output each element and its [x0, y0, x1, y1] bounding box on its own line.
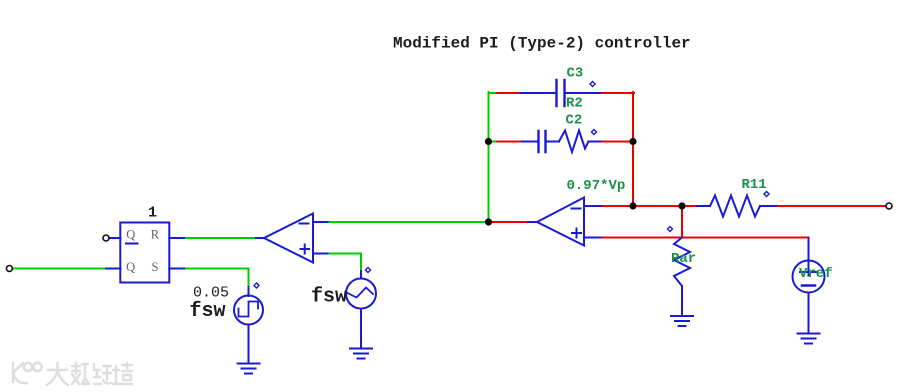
wire: op-amp plus input lead: [584, 237, 601, 239]
node marker diamond (C3): [590, 82, 595, 87]
wire: top branch left green stub: [489, 92, 498, 94]
ground below sine source: [350, 349, 372, 359]
comparator U2: [264, 214, 313, 263]
svg-text:0.97*Vp: 0.97*Vp: [567, 178, 626, 194]
wire: Rar bottom lead: [681, 286, 683, 316]
terminal: right open circle: [886, 203, 892, 209]
node marker diamond (C2/R2): [592, 130, 597, 135]
wire: comparator output to flip-flop R pin (green): [184, 237, 256, 239]
terminal: left open circle: [6, 266, 12, 272]
svg-text:Q: Q: [126, 228, 135, 242]
svg-text:0.05: 0.05: [193, 285, 229, 302]
wire: Vref bottom lead: [808, 293, 810, 334]
op-amp U1 0.97*Vp: [537, 198, 584, 246]
wire: flip-flop S pin to square source (green): [184, 269, 249, 288]
wire: op-amp output red segment: [489, 221, 529, 223]
wire: C2 branch red right segment: [600, 141, 633, 143]
watermark logo: [13, 363, 42, 383]
wire: square source top lead: [248, 287, 250, 296]
wire: flip-flop Qbar pin stub: [109, 237, 120, 239]
wire: left vertical green bus: [488, 92, 490, 222]
node marker diamond (square source): [254, 283, 259, 288]
svg-text:R11: R11: [742, 177, 767, 193]
wire: op-amp minus input lead: [584, 205, 601, 207]
terminal: flip-flop Qbar open circle: [103, 235, 109, 241]
ground below square source: [238, 364, 260, 374]
wire: comparator minus input lead: [313, 221, 328, 223]
svg-text:Q: Q: [126, 260, 135, 274]
node marker diamond (Rar): [668, 227, 673, 232]
svg-text:C3: C3: [567, 66, 584, 82]
wire: comparator plus input to sine source (green): [328, 254, 362, 272]
wire: Rar top red segment: [681, 206, 683, 238]
wire: C3 leads blue: [521, 92, 601, 94]
svg-text:fsw: fsw: [190, 300, 226, 323]
ground below Rar: [671, 316, 693, 326]
wire: square source bottom lead: [248, 325, 250, 364]
wire: C2 branch red left segment: [497, 141, 522, 143]
wire: R11 to right terminal red: [776, 205, 887, 207]
source Vref: [793, 261, 825, 293]
node marker diamond (sine source): [366, 268, 371, 273]
wire: R11 leads blue: [697, 205, 776, 207]
wire: top branch red left segment: [497, 92, 521, 94]
node marker diamond (R11): [764, 192, 769, 197]
junction dot (op-amp output node): [485, 218, 492, 225]
wire: flip-flop Q output to left terminal (green): [12, 268, 106, 270]
ground below Vref: [798, 334, 820, 344]
wire: plus line corner down to Vref: [808, 238, 810, 260]
wire: flip-flop R pin stub: [169, 237, 184, 239]
wire: flip-flop S pin stub: [169, 268, 184, 270]
wire: net between comparator minus input and op-amp output (green): [328, 221, 489, 223]
wire: flip-flop Q pin stub: [106, 268, 120, 270]
resistor Rar (vertical): [674, 238, 690, 287]
wire: sine source bottom lead: [360, 309, 362, 349]
resistor R11: [710, 196, 760, 217]
Qbar underline: [126, 243, 138, 245]
square wave source 0.05 fsw: [234, 296, 263, 325]
wire: comparator plus input lead: [313, 253, 328, 255]
svg-text:S: S: [152, 260, 159, 274]
watermark chinese text: [47, 363, 132, 385]
capacitor C3: [557, 80, 565, 106]
SR flip-flop U3: [120, 223, 169, 283]
wire: sine source top lead: [360, 271, 362, 279]
resistor R2 zigzag (series with C2): [559, 131, 589, 153]
wire: top branch red right segment: [600, 92, 634, 94]
svg-text:1: 1: [148, 205, 157, 222]
svg-text:fsw: fsw: [311, 286, 347, 309]
capacitor C2: [539, 131, 546, 152]
wire: right vertical red bus: [632, 92, 634, 206]
junction dot (minus line / right bus): [629, 202, 636, 209]
wire: op-amp output lead: [528, 221, 537, 223]
svg-text:R: R: [151, 228, 160, 242]
wire: op-amp plus input line red: [601, 237, 809, 239]
sine source fsw: [346, 279, 376, 309]
junction dot (C2 left): [485, 138, 492, 145]
svg-text:Vref: Vref: [799, 266, 833, 282]
junction dot (minus line / Rar): [678, 202, 685, 209]
svg-text:Rar: Rar: [671, 251, 696, 267]
wire: op-amp minus input line red: [601, 205, 698, 207]
svg-text:C2: C2: [566, 113, 583, 129]
wire: C2/R2 leads blue: [522, 141, 600, 143]
junction dot (C2 right): [629, 138, 636, 145]
wire: comparator output lead: [256, 237, 264, 239]
svg-text:R2: R2: [566, 96, 583, 112]
wire: C2 branch left green stub: [489, 141, 498, 143]
svg-text:Modified PI (Type-2) controlle: Modified PI (Type-2) controller: [393, 35, 691, 53]
